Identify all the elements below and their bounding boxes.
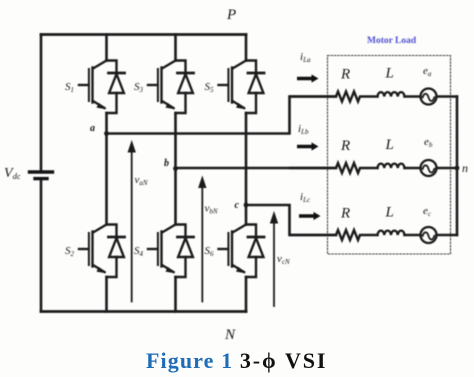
resistor R, inductor L, source ea : phase a branch bbox=[290, 89, 457, 105]
svg-text:b: b bbox=[164, 158, 169, 169]
transistor S3 (IGBT) bbox=[148, 61, 176, 109]
arrow vbN voltage reference bbox=[199, 177, 206, 302]
transistor S2 (IGBT) bbox=[79, 225, 107, 273]
svg-text:L: L bbox=[385, 137, 394, 153]
arrow iLb current bbox=[297, 142, 319, 150]
svg-text:iLb: iLb bbox=[298, 123, 309, 136]
svg-text:vaN: vaN bbox=[135, 174, 148, 187]
svg-text:R: R bbox=[340, 138, 350, 154]
arrow vcN voltage reference bbox=[271, 213, 278, 307]
figure caption bbox=[146, 348, 327, 374]
svg-text:vbN: vbN bbox=[205, 203, 218, 216]
svg-text:S1: S1 bbox=[65, 81, 74, 94]
wire leg2 collector segment bbox=[174, 35, 177, 61]
wire left rail upper bbox=[40, 35, 43, 171]
wire leg1 middle segment bbox=[105, 113, 108, 225]
svg-text:n: n bbox=[462, 161, 468, 175]
node b junction dot bbox=[173, 166, 178, 171]
node a junction dot bbox=[104, 131, 109, 136]
diode antiparallel with S1 bbox=[107, 61, 125, 114]
transistor S1 (IGBT) bbox=[79, 61, 107, 109]
svg-text:vcN: vcN bbox=[277, 253, 290, 266]
resistor R, inductor L, source eb : phase b branch bbox=[290, 160, 457, 176]
svg-text:ea: ea bbox=[423, 65, 432, 78]
diode antiparallel with S2 bbox=[107, 225, 125, 278]
arrow iLc current bbox=[299, 212, 321, 220]
wire leg3 middle segment bbox=[245, 113, 248, 225]
wire top rail P bbox=[41, 33, 246, 36]
svg-text:c: c bbox=[235, 200, 240, 211]
transistor S5 (IGBT) bbox=[219, 61, 247, 109]
svg-text:L: L bbox=[385, 205, 394, 221]
svg-text:R: R bbox=[340, 67, 350, 83]
svg-text:eb: eb bbox=[424, 136, 433, 149]
wire bottom rail N bbox=[41, 310, 246, 313]
motor load dashed box bbox=[328, 56, 451, 255]
wire leg3 collector segment bbox=[245, 35, 248, 61]
svg-text:S4: S4 bbox=[134, 245, 144, 258]
svg-text:Vdc: Vdc bbox=[4, 166, 21, 181]
wire leg1 collector segment bbox=[105, 35, 108, 61]
svg-text:N: N bbox=[224, 327, 236, 343]
node n junction dot bbox=[455, 166, 460, 171]
arrow iLa current bbox=[297, 74, 319, 82]
diode antiparallel with S6 bbox=[246, 225, 264, 278]
svg-text:P: P bbox=[226, 7, 236, 23]
wire leg2 middle segment bbox=[174, 113, 177, 225]
wire phase c from node c bbox=[246, 205, 336, 235]
wire leg1 emitter to rail bbox=[105, 277, 108, 312]
diode antiparallel with S4 bbox=[176, 225, 194, 278]
diode antiparallel with S5 bbox=[246, 61, 264, 114]
diode antiparallel with S3 bbox=[176, 61, 194, 114]
svg-text:iLa: iLa bbox=[300, 51, 311, 64]
wire phase a from node a bbox=[107, 97, 337, 134]
dc source Vdc battery plates bbox=[30, 172, 53, 179]
svg-text:iLc: iLc bbox=[300, 191, 311, 204]
wire left rail lower bbox=[40, 180, 43, 311]
wire leg3 emitter to rail bbox=[245, 277, 248, 312]
svg-text:Motor Load: Motor Load bbox=[367, 36, 417, 46]
transistor S6 (IGBT) bbox=[219, 225, 247, 273]
svg-text:S5: S5 bbox=[205, 81, 215, 94]
svg-text:S6: S6 bbox=[205, 245, 215, 258]
wire leg2 emitter to rail bbox=[174, 277, 177, 312]
svg-text:L: L bbox=[385, 66, 394, 82]
svg-text:a: a bbox=[90, 123, 95, 134]
wire right neutral bus bbox=[456, 97, 459, 236]
node c junction dot bbox=[244, 203, 249, 208]
transistor S4 (IGBT) bbox=[148, 225, 176, 273]
svg-text:S2: S2 bbox=[65, 245, 75, 258]
svg-text:ec: ec bbox=[423, 205, 432, 218]
arrow vaN voltage reference bbox=[128, 142, 135, 302]
wire phase b from node b bbox=[176, 167, 337, 170]
svg-text:S3: S3 bbox=[134, 81, 144, 94]
resistor R, inductor L, source ec : phase c branch bbox=[290, 227, 457, 243]
svg-text:R: R bbox=[340, 206, 350, 222]
